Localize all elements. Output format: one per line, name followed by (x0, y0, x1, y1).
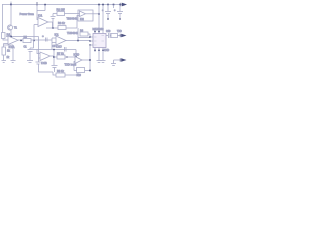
resistor R1 (left vertical) (2, 33, 6, 39)
wire x13 down (12, 45, 14, 61)
resistor R5 on output wire (23, 39, 31, 43)
stub x113 (113, 5, 115, 9)
node dot x90 y70.5 (89, 70, 91, 72)
node dot x54 y49.5 (53, 49, 54, 50)
capacitor C5 series in top wire (65, 47, 67, 52)
capacitor C4 in feedback (51, 17, 56, 19)
IC X1 right output row: capacitor C9 (106, 33, 112, 38)
wire feedback vertical x53 (52, 14, 54, 17)
ground under R4 (2, 61, 7, 63)
resistor R10 feedback (77, 68, 85, 73)
svg-text:IC2: IC2 (80, 18, 84, 21)
ground under C1 (27, 61, 33, 63)
svg-text:IC1: IC1 (38, 14, 43, 18)
op-amp IC2 (upper middle) (38, 18, 48, 27)
transistor T1 (7, 25, 12, 30)
wire top supply rail (2, 4, 122, 6)
op-amp IC1A (8, 36, 18, 45)
resistor R2 (57, 12, 65, 16)
wire stub above rail at x=11 (10, 2, 12, 6)
bottom right wire (114, 60, 122, 64)
resistor R3 (58, 26, 66, 30)
IC X1 pin name marks (94, 36, 104, 46)
wire bottom row right (65, 73, 78, 75)
wire row y57 (54, 56, 75, 58)
wire IC1C output (66, 40, 90, 42)
wire R1 down to op-amp input (3, 39, 8, 44)
node dot x21 (20, 40, 22, 42)
wire minus input from node row (34, 25, 38, 41)
svg-text:Power from: Power from (20, 12, 35, 16)
svg-text:C10: C10 (106, 30, 111, 33)
wire bottom loop left (36, 37, 54, 73)
supply arrow VCC (120, 3, 122, 6)
wire x90 vertical (89, 45, 91, 71)
wire transistor to node row (6, 30, 39, 36)
svg-text:RXD: RXD (104, 49, 109, 52)
wire inputs IC1C (52, 38, 56, 50)
svg-text:THS4041: THS4041 (67, 17, 79, 21)
ground under pin x95 (97, 61, 102, 63)
wire IC2B output (82, 59, 90, 61)
wire branch x33.5 down to cap (30, 41, 34, 50)
resistor R7 (57, 55, 65, 59)
node dot x53 y28 (52, 27, 54, 29)
svg-text:IC1B: IC1B (41, 61, 47, 65)
wire IC1B inputs (37, 50, 40, 59)
wire R10 loop (74, 62, 90, 71)
sub-circuit wire top y49.5 (33, 49, 76, 51)
node dot x54 y57 (53, 56, 55, 58)
wire R4 to ground (3, 55, 5, 61)
capacitor C7 below rail (105, 5, 111, 19)
wire U3 output (86, 13, 100, 15)
node tick rail x37 (36, 2, 38, 6)
ground under pin x103 (101, 61, 106, 63)
capacitor C1 (28, 50, 34, 52)
node dot x34 (33, 40, 35, 42)
wire C1 to ground (29, 52, 31, 61)
wire supply to IC2 from rail (37, 5, 38, 20)
svg-text:IC1C: IC1C (56, 46, 62, 49)
IC X1 bottom pins (95, 48, 103, 61)
wire left drop (2, 5, 4, 34)
svg-text:IC1D: IC1D (74, 54, 80, 57)
svg-text:+: + (42, 34, 44, 38)
wire IC2 output with jog (48, 22, 53, 28)
connector arrow RXD (119, 58, 121, 61)
IC X1 box (93, 34, 106, 48)
svg-text:TXD: TXD (117, 30, 122, 33)
capacitor C6 on x54 (52, 66, 58, 73)
svg-text:MAX3232: MAX3232 (93, 28, 105, 31)
capacitor C8 below rail (117, 5, 123, 19)
node dot x11 y36.5 (10, 36, 12, 38)
svg-text:R7 1k: R7 1k (57, 51, 64, 55)
resistor R6 (80, 32, 88, 36)
wire branch x78 (77, 28, 79, 41)
svg-text:R8 1k: R8 1k (57, 69, 64, 73)
svg-text:R2 1k5: R2 1k5 (57, 7, 66, 11)
node dot x99 y13.8 (98, 13, 100, 15)
wire vertical x=11 to transistor (10, 5, 12, 26)
svg-text:THS4041: THS4041 (67, 31, 79, 35)
ground x113 (111, 64, 116, 66)
node dots rail right (98, 4, 100, 6)
svg-text:IC1A: IC1A (9, 45, 15, 49)
wire feedback top row (53, 13, 77, 15)
wire corner x76 (75, 50, 77, 58)
ground x13 (11, 61, 16, 63)
wire IC1B output (50, 55, 54, 57)
wire vertical x54 (53, 50, 55, 66)
op-amp IC1C (center) (56, 36, 66, 45)
resistor R8 (56, 73, 65, 77)
IC X1 left pins (90, 37, 93, 45)
wire jog to bottom row (53, 72, 56, 75)
wire row y28 (46, 27, 77, 29)
node dot x78 y40.5 (77, 40, 79, 42)
node dot rail x11 (10, 4, 12, 6)
svg-text:R5: R5 (24, 35, 28, 39)
capacitor C2 polarized (46, 38, 48, 42)
node dot x67 y57 (66, 56, 67, 57)
IC X1 top pins (95, 5, 103, 34)
bottom-left resistor R4 (2, 47, 6, 55)
wire R6 to IC pin (78, 34, 90, 38)
node dot rail x45 (44, 4, 46, 6)
op-amp IC1B (40, 52, 50, 61)
wire to connector (118, 35, 122, 37)
svg-text:IC1: IC1 (55, 32, 60, 36)
resistor R9 (111, 34, 118, 38)
op-amp U3 feedback box (78, 10, 93, 21)
connector arrow TXD (119, 34, 121, 37)
op-amp U3 (80, 11, 86, 17)
wire U3 inputs (77, 14, 80, 29)
wire op-amp IC1A output (18, 39, 52, 41)
node dot x90 y60 (89, 59, 91, 61)
svg-text:R10: R10 (77, 74, 82, 77)
svg-text:R3 1k: R3 1k (58, 21, 65, 25)
wire bias L to plus input (37, 5, 45, 11)
wire R4 top (4, 44, 14, 48)
node dot x76 y57 (75, 56, 77, 58)
